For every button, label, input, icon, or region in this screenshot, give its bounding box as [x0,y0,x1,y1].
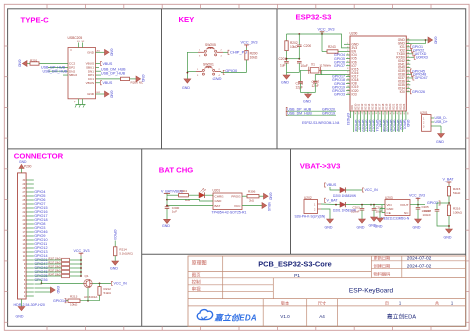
svg-text:R243: R243 [328,45,336,49]
svg-text:KEY: KEY [179,15,195,24]
svg-text:32.768kHz: 32.768kHz [320,65,332,68]
net port VBUS (right arrow) [262,203,267,209]
svg-text:S2B-PH-K-S(LF)(SN): S2B-PH-K-S(LF)(SN) [295,215,326,219]
svg-text:版本: 版本 [281,299,290,306]
svg-text:SBU2: SBU2 [69,73,77,77]
svg-text:51kΩ: 51kΩ [453,191,461,195]
svg-text:ESP-KeyBoard: ESP-KeyBoard [349,287,394,294]
svg-text:嘉立创EDA: 嘉立创EDA [387,313,416,321]
wire CC1 to GND [130,78,137,80]
net list USB_DM_HUB / USB_DP_HUB (ESP32) [287,110,337,112]
svg-text:10kΩ: 10kΩ [70,303,78,307]
svg-text:GPIO1: GPIO1 [403,120,407,130]
capacitor C208 100nF [437,203,440,210]
svg-text:Q1: Q1 [85,274,89,278]
wire BAT pin to rail [167,205,213,207]
svg-text:2024-07-02: 2024-07-02 [407,256,432,262]
svg-text:R207 10kΩ: R207 10kΩ [49,257,61,260]
svg-text:GND: GND [87,92,95,96]
U200 right net flag GPIO26 [410,90,411,94]
svg-text:ESP32-S3-WROOM-1-N4: ESP32-S3-WROOM-1-N4 [302,121,340,125]
svg-text:2kΩ: 2kΩ [249,199,254,203]
wire caps to crystal GND [301,92,316,94]
wire PROG to R306 [242,195,247,197]
wire SW205 to CHIP_PU [223,51,228,53]
U200 bottom pins and net labels [350,103,410,132]
svg-text:VCC_3V3: VCC_3V3 [241,41,258,45]
svg-text:P1: P1 [294,273,300,279]
ground GND (U203) [377,218,384,222]
wire GND pin row [344,43,350,45]
svg-text:审视: 审视 [192,285,201,292]
svg-text:PROG: PROG [231,195,241,199]
svg-text:VCC_3V3: VCC_3V3 [318,28,335,32]
svg-text:R217 10kΩ: R217 10kΩ [49,261,61,264]
capacitor C204 10uF [373,205,375,209]
wire C201 to GND [286,63,288,75]
ground GND (C203) [359,219,366,223]
svg-text:VBUS: VBUS [86,81,94,85]
ground GND (U201) [438,134,445,138]
svg-text:5.1kΩ(NC): 5.1kΩ(NC) [119,251,133,255]
svg-text:U200: U200 [350,32,358,36]
resistor R201 [30,62,39,65]
switch SW205 body [198,51,204,53]
svg-text:GND: GND [19,160,27,164]
svg-text:嘉立创EDA: 嘉立创EDA [214,313,257,322]
svg-text:GND: GND [110,91,114,99]
svg-text:3: 3 [347,50,348,52]
svg-text:创建日期: 创建日期 [374,262,391,269]
svg-text:VOUT: VOUT [400,203,409,207]
U201 pins + nets USB_D-/USB_D+ [431,117,434,119]
wire gate rail [80,300,100,302]
svg-text:GND: GND [56,286,60,294]
IC U301 TP4054 body [213,193,242,210]
wire R201 to GND port [27,63,30,65]
svg-text:控制: 控制 [192,279,201,286]
wire R202 bottom to EN node [286,51,288,62]
svg-text:ESP32-S3: ESP32-S3 [296,13,332,22]
svg-text:GND: GND [162,224,170,228]
wire U203 CE tie to VIN [382,205,385,213]
title block outline [188,256,466,326]
connector P200 body [18,173,27,299]
svg-text:R237 10kΩ: R237 10kΩ [49,269,61,272]
svg-text:R213: R213 [70,294,78,298]
svg-text:GPIO33: GPIO33 [346,113,350,125]
net flag VCC_IN (VBAT block) [363,188,364,192]
ground GND (C205) [415,219,422,223]
U200 left GPIO17-GPIO20 net flags [332,75,350,97]
wire rail to R304 [167,194,179,196]
wire U203 GND to ground [380,209,385,219]
junction VCC_IN node [99,283,101,285]
svg-text:GPIO2: GPIO2 [427,201,438,205]
svg-text:GND: GND [413,226,421,230]
wire VCC pin to VBUS port [242,205,262,207]
ground port GND (right arrow) [105,49,110,55]
svg-text:CHRG: CHRG [215,195,225,199]
svg-text:VBUS: VBUS [267,202,271,212]
svg-text:GND: GND [213,76,222,81]
svg-text:9: 9 [347,72,348,74]
svg-text:1: 1 [347,43,348,45]
USB-C connector USBC205 body [68,48,96,99]
wire EN node horizontal [287,58,300,60]
svg-text:100nF: 100nF [423,213,432,217]
svg-text:GPIO47: GPIO47 [415,76,428,80]
net flag bar V_BAT [164,192,170,194]
svg-text:GND: GND [444,236,452,240]
svg-text:GPIO7: GPIO7 [334,64,345,68]
svg-text:GPIO14: GPIO14 [375,120,379,132]
ground GND (ESP32 left) [283,75,290,79]
wire R243 to EN pin [338,51,350,53]
ground GND (divider) [446,229,453,233]
wire pins 2-3 to GND port [35,287,51,289]
svg-text:8: 8 [347,68,348,70]
U200 left GPIO4-GPIO7 net flags [334,53,350,68]
wire GND pin left [167,200,213,201]
frame zone ticks [46,4,48,9]
svg-text:10uF: 10uF [376,210,383,214]
ground GND (crystal) [307,93,309,95]
U200 right net flags GPIO1/GPIO2/U0TXD/U0RXD [410,45,428,60]
switch SW201 body [196,71,202,73]
wire U202 pin1 to D201 [321,203,340,206]
net flag VCC_IN (connector) [112,281,113,285]
wire divider node [448,196,450,205]
svg-text:10uF: 10uF [301,64,308,68]
resistor R213 [68,299,80,302]
ground port GND (left arrow) [22,61,27,67]
svg-text:GPIO3: GPIO3 [334,92,345,96]
svg-text:GND: GND [18,60,22,68]
ground port GND (PROG) [264,193,269,199]
svg-text:物料编码: 物料编码 [374,271,391,278]
svg-text:VCC_IN: VCC_IN [114,282,128,286]
block divider horizontal mid [8,148,466,150]
svg-text:100nF: 100nF [351,210,360,214]
net flag VBUS 1 [96,63,101,65]
svg-text:BAT CHG: BAT CHG [159,166,193,175]
svg-text:1kΩ: 1kΩ [185,198,190,202]
junction switch rail [187,72,189,74]
svg-text:R306: R306 [248,190,256,194]
svg-text:GND: GND [215,199,223,203]
wire Q1 gate down [87,288,89,301]
svg-text:12pF: 12pF [296,86,303,90]
wire VBUS to D200 [330,187,340,190]
svg-text:VBUS: VBUS [103,81,113,85]
svg-text:NC: NC [404,211,409,215]
resistor R212 [99,283,101,286]
svg-text:CONNECTOR: CONNECTOR [14,151,64,160]
svg-text:GPIO0: GPIO0 [113,230,117,240]
svg-text:GND: GND [110,49,114,57]
svg-text:C200: C200 [304,44,312,48]
svg-text:AO3401A: AO3401A [84,295,98,299]
svg-text:51kΩ: 51kΩ [104,291,112,295]
svg-text:GND: GND [87,51,95,55]
resistor R206 [121,77,130,80]
svg-text:GND: GND [325,226,333,230]
svg-text:1uF: 1uF [280,64,286,68]
svg-text:VBAT->3V3: VBAT->3V3 [300,161,341,170]
resistor R202 [286,34,288,41]
svg-text:USB_DM_HUB: USB_DM_HUB [43,70,68,74]
svg-text:GND: GND [357,226,365,230]
wire crystal right to C207 and IO15/IO16 [315,70,321,81]
svg-text:U0RXD: U0RXD [416,55,429,59]
svg-text:TYPE-C: TYPE-C [21,15,50,24]
wire VCC to R200 [246,48,248,51]
svg-text:GND: GND [141,75,145,83]
junction rail at VCC stem [321,33,323,35]
svg-text:U301: U301 [213,189,221,193]
svg-text:VCC_3V3: VCC_3V3 [74,249,90,253]
IC U203 ME6211 body [385,200,410,216]
svg-text:2: 2 [347,47,348,49]
svg-text:VCC_IN: VCC_IN [365,188,379,192]
resistor R200 [245,50,248,60]
svg-text:USB_DM_HUB: USB_DM_HUB [287,112,312,116]
svg-text:GND: GND [182,86,190,90]
svg-text:GND: GND [436,140,444,144]
ground GND (U202) [327,219,334,223]
svg-text:尺寸: 尺寸 [318,299,326,306]
ground GND (R214) [112,261,119,265]
wire switches left rail to GND [187,52,198,79]
svg-text:R304: R304 [180,189,188,193]
ground GND (P200 bottom) [21,299,23,307]
resistor R216 [447,205,450,216]
block divider TYPE-C/KEY [161,9,163,149]
svg-text:GND: GND [406,120,410,128]
U200 left pin names [347,42,359,96]
title block grid lines [188,256,466,326]
junction rail at C200 branch [298,33,300,35]
svg-text:IO24: IO24 [402,103,406,110]
svg-text:V1.0: V1.0 [280,314,290,319]
net flag V_BAT (mid) [325,198,326,202]
svg-text:R201: R201 [30,59,38,63]
svg-text:更新日期: 更新日期 [374,254,391,261]
svg-text:GPIO19: GPIO19 [322,112,335,116]
svg-text:GPIO26: GPIO26 [412,90,425,94]
svg-text:PCB_ESP32-S3-Core: PCB_ESP32-S3-Core [258,259,332,268]
svg-text:SW205: SW205 [205,43,216,47]
svg-text:GND: GND [269,193,273,201]
svg-text:2024-07-02: 2024-07-02 [407,264,432,270]
svg-text:R227 10kΩ: R227 10kΩ [49,265,61,268]
net flag VBUS 2 [96,82,101,84]
capacitor C205 100nF [417,205,419,208]
net flag VBUS (top) [325,183,326,187]
capacitor C200 branch [298,34,300,45]
wire caps common to GND [287,72,300,74]
svg-text:GND: GND [16,315,24,319]
svg-text:GND: GND [110,266,118,270]
wire D201 to U203 VIN [345,204,385,206]
capacitor C300 [166,206,168,208]
capacitor C202 10uF [297,60,302,62]
wire D200 to VCC_IN [345,189,362,191]
svg-text:V_BAT: V_BAT [443,178,455,182]
svg-text:10kΩ: 10kΩ [290,45,298,49]
wire GND top [96,51,105,53]
svg-text:USB_DP_HUB: USB_DP_HUB [101,72,126,76]
wire EN pullup branch [321,34,323,52]
block divider BAT-CHG/VBAT [290,149,292,254]
connector U202 battery header [304,200,318,214]
resistor R306 [247,195,259,198]
svg-text:GPIO0: GPIO0 [225,68,238,73]
svg-text:GND: GND [281,81,289,85]
net flag GPIO2 (divider) [440,202,449,204]
U200 right pin names [396,38,410,94]
wire R212 bottom to gate rail [99,295,101,301]
svg-text:C201: C201 [279,57,287,61]
svg-text:GND: GND [375,225,383,229]
block divider CONNECTOR right [141,149,143,326]
ground GND (C204) [371,217,378,221]
wire pin5-pin4 jog to Q1 rail [35,279,42,281]
svg-text:VBUS: VBUS [327,183,337,187]
IC U201 body [422,115,432,132]
wire VCC stem to rail [321,33,323,35]
diode D200 [340,187,345,192]
svg-text:1uF: 1uF [172,210,177,214]
capacitor C203 100nF [361,205,363,209]
ground port GND (U200 right) [426,39,429,41]
ground GND (C300) [164,219,171,223]
svg-text:A4: A4 [319,314,325,319]
USBC205 shield pins top [78,43,80,48]
wire R216 bottom to GND [448,216,450,229]
block bottom line BAT-CHG/VBAT [142,253,466,255]
wire 3V3 rail [287,34,351,48]
svg-text:GND: GND [434,37,438,45]
logo JLC EDA cloud icon [197,310,212,320]
svg-text:原理图: 原理图 [192,261,207,267]
svg-text:TP4054-42-SOT25-R1: TP4054-42-SOT25-R1 [212,211,247,215]
svg-text:10kΩ: 10kΩ [250,56,258,60]
wire crystal left to C206 [301,70,308,81]
svg-text:R247 10kΩ: R247 10kΩ [49,273,61,276]
wire pin4 to Q1 and VCC_IN [35,283,42,285]
connector P200 pins [23,179,48,298]
svg-text:ME6211C33M5G-N: ME6211C33M5G-N [381,217,410,221]
svg-text:VCC_3V3: VCC_3V3 [409,194,425,198]
resistor R215 [447,187,450,196]
svg-text:IO3: IO3 [352,92,357,96]
diode D201 [340,202,345,207]
svg-text:SW201: SW201 [203,62,214,66]
U200 right net flags GPIO45/GPIO48/GPIO47 [410,69,427,80]
wire VOUT to VCC_3V3 [410,204,425,206]
USBC205 shield pins bottom + chassis ground [78,99,80,105]
LED LED300 [188,194,199,196]
svg-text:D200 1N5819W: D200 1N5819W [333,194,357,198]
net flag CHIP_PU [228,50,229,54]
svg-text:V_BAT: V_BAT [327,199,339,203]
net flag GPIO14 (gate) [66,300,68,302]
svg-text:共: 共 [435,299,439,306]
resistor R243 [327,50,338,53]
svg-text:P200: P200 [24,165,32,169]
ground GND (KEY) [184,79,191,83]
svg-text:BAT: BAT [215,204,221,208]
ground port GND (connector pins) [51,287,56,293]
wire R200 to GPIO0 row [246,60,248,73]
ground port GND bottom (right arrow) [105,91,110,97]
pullup resistors R207-R211 cluster [35,257,82,277]
wire left rail vertical [166,196,168,207]
ground port GND right of R206 [136,76,141,82]
net flag GPIO0 wire to R200 [220,71,222,74]
svg-text:USBC205: USBC205 [68,36,83,40]
resistor R304 [179,194,189,197]
module U200 ESP32-S3-WROOM body [350,36,406,111]
svg-text:100kΩ: 100kΩ [453,211,463,215]
svg-text:VBUS: VBUS [103,62,113,66]
wire U200 GND pins to GND port [406,40,425,43]
svg-text:GPIO14: GPIO14 [53,299,66,303]
svg-text:IO0: IO0 [400,90,405,94]
svg-text:GND: GND [303,100,311,104]
svg-text:CE: CE [387,211,391,215]
svg-text:USB_D+: USB_D+ [435,120,448,124]
svg-text:X1: X1 [311,63,315,67]
svg-text:VCC: VCC [234,204,241,208]
block divider KEY/ESP32-S3 [276,9,278,149]
wire U202 pin2 to GND [321,209,330,219]
